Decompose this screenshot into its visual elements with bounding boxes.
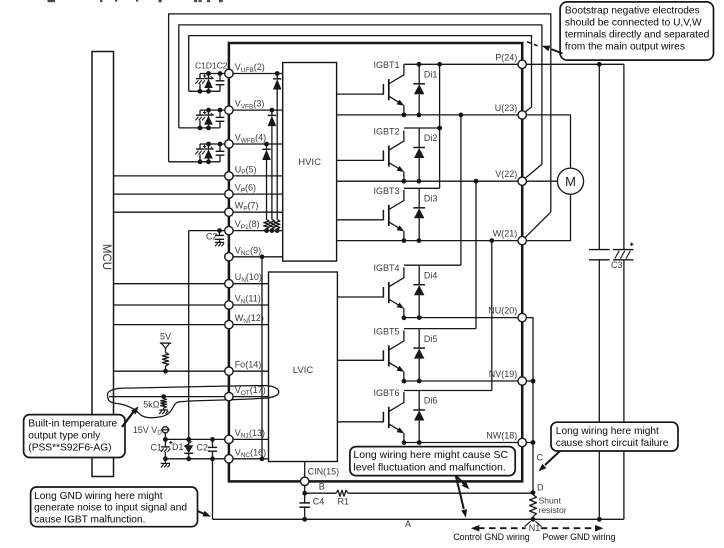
wire NV stub to sense bus	[526, 380, 533, 382]
pin VP(6)	[225, 183, 256, 199]
diode D1 bootstrap W (zener)	[204, 142, 213, 165]
svg-text:IGBT5: IGBT5	[374, 326, 400, 336]
wire bootstrap U bottom rail	[189, 90, 220, 92]
svg-text:C1D1C2: C1D1C2	[195, 61, 228, 71]
capacitor C2 bootstrap V	[216, 108, 225, 128]
wire pin to LVIC	[233, 283, 268, 285]
svg-text:IGBT6: IGBT6	[374, 388, 400, 398]
wire IGBT4 collector rail	[404, 264, 461, 266]
wire MCU to UN pin	[114, 283, 225, 285]
wire pin to LVIC	[233, 304, 268, 306]
svg-text:Di4: Di4	[424, 270, 438, 280]
wire pin to LVIC	[233, 458, 268, 460]
svg-text:Long GND wiring here might: Long GND wiring here might	[34, 491, 163, 502]
wire bootstrap loop V phase (middle)	[179, 25, 542, 164]
wire R1 to node D	[348, 492, 533, 494]
pin VN1(13)	[225, 428, 265, 444]
svg-text:IGBT1: IGBT1	[374, 60, 400, 70]
svg-text:output type only: output type only	[28, 431, 101, 442]
pin VOT(17)	[225, 385, 266, 401]
wire V output to motor	[526, 180, 557, 182]
wire CIN to node B	[304, 486, 306, 494]
svg-text:Di3: Di3	[424, 194, 438, 204]
svg-text:W(21): W(21)	[493, 229, 518, 239]
motor M	[557, 168, 583, 194]
svg-text:NV(19): NV(19)	[489, 369, 518, 379]
wire VNC(9) line junction	[260, 254, 265, 259]
diode D1 bootstrap V (zener)	[204, 108, 213, 131]
wire IGBT5 collector rail	[404, 328, 476, 330]
svg-text:Di6: Di6	[424, 396, 438, 406]
wire bootstrap V bottom rail	[179, 127, 220, 129]
wire P bus rail	[404, 62, 624, 67]
pin VWFB(4)	[225, 133, 266, 149]
svg-text:resistor: resistor	[539, 505, 567, 515]
transistor IGBT1	[383, 64, 406, 117]
diode internal bootstrap BSD U	[273, 71, 282, 219]
svg-text:C3: C3	[611, 260, 623, 270]
svg-text:IGBT4: IGBT4	[374, 263, 400, 273]
wire LVIC gate to IGBT4	[337, 296, 383, 298]
wire bootstrap U top rail	[200, 73, 225, 75]
wire W bootstrap return diagonal	[525, 212, 551, 238]
power 15V VD supply terminal	[133, 425, 170, 442]
pin U(23)	[495, 103, 527, 119]
wire LVIC gate to IGBT6	[337, 421, 383, 423]
capacitor C1 bootstrap U (electrolytic)	[195, 74, 206, 92]
wire U phase output line	[337, 113, 518, 118]
diode Di3 freewheel	[413, 188, 425, 240]
wire input pin to HVIC	[233, 175, 283, 177]
wire V bootstrap return diagonal	[525, 164, 542, 178]
callout long wiring SC level fluctuation	[350, 447, 515, 476]
wire VOT pin to MCU	[109, 396, 225, 398]
svg-text:R1: R1	[338, 496, 350, 506]
svg-text:C4: C4	[313, 497, 325, 507]
node D junction	[531, 490, 536, 495]
transistor IGBT4	[383, 267, 406, 320]
capacitor C1 bootstrap W (electrolytic)	[195, 144, 206, 162]
pin W(21)	[493, 229, 527, 245]
wire VP1 rail to bypass cap and 15V riser	[189, 230, 225, 232]
svg-text:MCU: MCU	[100, 244, 112, 270]
op-amp/IC HVIC U-block	[283, 63, 337, 262]
wire pin to LVIC	[233, 396, 268, 398]
pin NV(19)	[489, 369, 527, 385]
wire bootstrap loop W phase (outer)	[169, 14, 551, 212]
svg-text:(PSS**S92F6-AG): (PSS**S92F6-AG)	[28, 443, 111, 454]
svg-text:U(23): U(23)	[495, 103, 518, 113]
resistor R1	[336, 490, 349, 506]
node N1 junction	[531, 517, 536, 522]
capacitor C1 bootstrap V (electrolytic)	[195, 110, 206, 128]
wire A ground line	[213, 518, 624, 520]
wire MCU to Fo pin	[114, 370, 225, 372]
callout bootstrap arrow	[527, 42, 563, 54]
wire MCU to VP pin	[114, 193, 225, 195]
callout bootstrap negative electrodes	[560, 2, 713, 60]
wire VNC(9) pin to HVIC	[233, 256, 283, 258]
wire bootstrap V top rail	[200, 109, 225, 111]
svg-text:IGBT2: IGBT2	[374, 127, 400, 137]
wire MCU to WN pin	[114, 324, 225, 326]
wire MCU to WP pin	[114, 211, 225, 213]
svg-text:Long wiring here might: Long wiring here might	[556, 426, 659, 437]
transistor IGBT2	[383, 131, 406, 184]
pin NU(20)	[488, 306, 526, 322]
wire U bootstrap return diagonal	[525, 107, 532, 112]
wire LVIC gate to IGBT5	[337, 359, 383, 361]
capacitor snubber on P bus	[589, 250, 610, 260]
pin UP(5)	[225, 164, 257, 180]
diode internal bootstrap BSD V	[268, 108, 277, 220]
node N1 ticks	[525, 521, 542, 526]
transistor IGBT6	[383, 392, 406, 445]
svg-text:C1: C1	[150, 442, 162, 452]
svg-text:Di1: Di1	[424, 70, 438, 80]
wire MCU to VN pin	[114, 304, 225, 306]
pin VNC(9)	[225, 245, 261, 261]
wire 15V riser VP1 to VN1	[188, 231, 190, 440]
svg-text:Power GND wiring: Power GND wiring	[543, 532, 616, 542]
pin P(24)	[495, 52, 526, 68]
svg-text:Di5: Di5	[424, 334, 438, 344]
svg-text:NW(18): NW(18)	[486, 431, 517, 441]
svg-text:cause short circuit failure: cause short circuit failure	[556, 438, 669, 449]
wire pin to LVIC	[233, 438, 268, 440]
capacitor C2 bootstrap U	[216, 71, 225, 91]
svg-text:A: A	[405, 519, 411, 529]
wire bootstrap W bottom rail	[169, 161, 220, 163]
svg-text:D: D	[537, 483, 544, 493]
pin VN(11)	[225, 294, 261, 310]
svg-text:N1: N1	[529, 523, 541, 533]
diode D1 on 15V rail (zener)	[172, 437, 193, 461]
capacitor C3 (electrolytic)	[611, 242, 634, 270]
svg-text:should be connected to U,V,W: should be connected to U,V,W	[565, 18, 702, 29]
diode Di1 freewheel	[413, 64, 425, 115]
svg-text:Di2: Di2	[424, 133, 438, 143]
pin Fo(14)	[225, 360, 262, 376]
diode Di5 freewheel	[413, 329, 425, 381]
wire NW stub to sense bus	[526, 442, 533, 444]
callout short circuit arrow	[539, 451, 561, 471]
junction NV bus	[531, 379, 536, 384]
power GND wiring dashed arrow	[541, 525, 616, 542]
pin VUFB(2)	[225, 62, 265, 78]
svg-text:5V: 5V	[160, 331, 171, 341]
pin VP1(8)	[225, 219, 260, 235]
wire VNC(16) ground rail	[165, 458, 224, 460]
svg-text:cause IGBT malfunction.: cause IGBT malfunction.	[34, 514, 145, 525]
wire IGBT6 collector rail	[404, 390, 492, 392]
wire NU emitter line	[404, 315, 518, 320]
svg-text:Shunt: Shunt	[539, 496, 562, 506]
capacitor C1 on 15V rail (electrolytic)	[150, 439, 172, 461]
wire W output to motor	[526, 194, 570, 240]
svg-text:V(22): V(22)	[495, 169, 517, 179]
wire node B to R1	[305, 492, 336, 494]
capacitor C4	[299, 493, 324, 521]
svg-text:IGBT3: IGBT3	[374, 186, 400, 196]
svg-text:5kΩ: 5kΩ	[143, 400, 160, 410]
wire IGBT2 collector rail	[404, 127, 440, 129]
svg-text:C: C	[537, 453, 544, 463]
wire VP1 pin to HVIC	[233, 230, 283, 232]
resistor internal bootstrap U	[275, 220, 280, 234]
resistor Fo pull-up	[162, 353, 168, 374]
capacitor C2 on VP1	[206, 228, 224, 242]
wire W output to IGBT6 collector	[491, 241, 493, 391]
svg-text:C2: C2	[196, 442, 208, 452]
pin CIN(15)	[301, 462, 340, 486]
pin WP(7)	[225, 201, 259, 217]
diode Di6 freewheel	[413, 391, 425, 443]
wire DC bus electrolytic branch	[623, 64, 625, 519]
svg-text:P(24): P(24)	[495, 52, 517, 62]
wire V output to IGBT5 collector	[475, 181, 477, 328]
svg-text:HVIC: HVIC	[298, 157, 321, 168]
svg-text:from the main output wires: from the main output wires	[565, 42, 685, 53]
pin NW(18)	[486, 431, 526, 447]
resistor shunt	[530, 495, 567, 520]
cropped caption text remnants at top edge	[48, 0, 223, 2]
svg-text:Long wiring here might cause S: Long wiring here might cause SC	[353, 449, 508, 461]
callout built-in temperature arrow	[122, 406, 139, 427]
wire pin to LVIC	[233, 324, 268, 326]
diode internal bootstrap BSD W	[262, 142, 271, 220]
wire VWFB pin to HVIC	[233, 143, 283, 145]
diode Di2 freewheel	[413, 128, 425, 181]
svg-text:Fo(14): Fo(14)	[235, 360, 262, 370]
wire pin to LVIC	[233, 370, 268, 372]
callout built-in temperature output	[24, 415, 125, 458]
power 5V supply symbol	[160, 331, 171, 352]
wire U output to IGBT4 collector	[460, 115, 462, 265]
pin WN(12)	[225, 313, 264, 329]
wire bootstrap loop U phase (inner)	[189, 36, 532, 107]
transistor IGBT5	[383, 331, 406, 384]
svg-text:Control GND wiring: Control GND wiring	[453, 532, 530, 542]
junction VNC(16)	[260, 456, 265, 461]
svg-text:M: M	[565, 174, 576, 189]
wire MCU to UP pin	[114, 175, 225, 177]
wire V phase output line	[337, 179, 518, 184]
svg-text:D1: D1	[172, 442, 184, 452]
svg-text:level fluctuation and malfunct: level fluctuation and malfunction.	[353, 462, 505, 474]
wire W phase output line	[337, 238, 518, 243]
junction 15V riser on VN1	[186, 437, 191, 442]
wire IGBT3 collector rail	[404, 187, 440, 189]
resistor internal bootstrap V	[269, 220, 274, 234]
wire input pin to HVIC	[233, 211, 283, 213]
resistor internal bootstrap W	[264, 220, 269, 234]
capacitor C2 bootstrap W	[216, 142, 225, 162]
svg-text:C2: C2	[206, 231, 218, 241]
diode D1 bootstrap U (zener)	[204, 71, 213, 94]
callout SC arrow to A line	[456, 476, 467, 518]
svg-text:NU(20): NU(20)	[488, 306, 517, 316]
transistor IGBT3	[383, 190, 406, 243]
svg-text:LVIC: LVIC	[293, 365, 314, 376]
ground under C1	[161, 459, 170, 468]
wire VVFB pin to HVIC	[233, 109, 283, 111]
wire U output to motor	[526, 115, 570, 168]
ground under 5kOhm	[159, 409, 167, 411]
wire VUFB pin to HVIC	[233, 73, 283, 75]
callout long wiring short circuit failure	[551, 422, 678, 451]
MCU box	[92, 52, 114, 477]
hand-drawn loop around VOT temperature output	[107, 386, 278, 418]
callout long GND wiring arrow	[198, 511, 212, 517]
wire P bus internal vertical	[437, 64, 442, 188]
capacitor C2 on 15V rail	[196, 437, 217, 461]
wire VN1 15V rail	[165, 438, 224, 440]
junction NW bus	[531, 440, 536, 445]
callout long GND wiring warning	[31, 487, 198, 527]
callout SC arrow to node B wire	[456, 476, 470, 490]
wire HVIC gate to IGBT3	[337, 219, 384, 221]
wire NU stub to sense bus	[526, 318, 533, 493]
svg-text:CIN(15): CIN(15)	[308, 467, 340, 477]
wire control ground drop to A line	[212, 459, 214, 520]
IPM module outline box	[229, 43, 522, 481]
node B junction	[302, 491, 307, 496]
wire bootstrap W top rail	[200, 143, 225, 145]
svg-text:Bootstrap negative electrodes: Bootstrap negative electrodes	[565, 6, 700, 17]
resistor 5kOhm on VOT	[143, 394, 166, 410]
ground under C2 VP1	[215, 241, 224, 243]
wire P bus right vertical (snubber branch)	[597, 64, 602, 521]
wire VNC riser 9 to 16	[261, 257, 263, 459]
pin V(22)	[495, 169, 526, 185]
pin UN(10)	[225, 272, 262, 288]
op-amp/IC LVIC block	[269, 272, 338, 462]
svg-text:Built-in temperature: Built-in temperature	[28, 418, 117, 429]
wire NW emitter line	[404, 440, 518, 445]
diode Di4 freewheel	[413, 265, 425, 317]
control GND wiring dashed arrow	[453, 525, 530, 542]
pin VVFB(3)	[225, 99, 265, 115]
wire HVIC gate to IGBT2	[337, 159, 384, 161]
wire HVIC gate to IGBT1	[337, 93, 384, 95]
wire input pin to HVIC	[233, 193, 283, 195]
svg-text:generate noise to input signal: generate noise to input signal and	[34, 503, 187, 514]
svg-text:B: B	[319, 481, 325, 491]
pin VNC(16)	[225, 447, 266, 463]
svg-text:terminals directly and separat: terminals directly and separated	[565, 30, 710, 41]
wire NV emitter line	[404, 379, 518, 384]
